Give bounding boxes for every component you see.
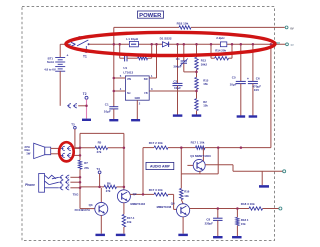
svg-text:C1: C1	[105, 102, 109, 106]
svg-text:C2: C2	[173, 80, 177, 84]
svg-text:27k: 27k	[97, 150, 102, 154]
svg-text:T4: T4	[96, 167, 100, 171]
svg-text:LT1613: LT1613	[123, 71, 133, 75]
svg-text:10μF: 10μF	[230, 83, 237, 87]
svg-text:T5G: T5G	[73, 192, 80, 196]
svg-text:GND: GND	[135, 97, 141, 100]
svg-text:D1 SS22: D1 SS22	[160, 37, 172, 41]
svg-text:R17 3 10k: R17 3 10k	[149, 188, 163, 192]
svg-text:Q3: Q3	[89, 203, 93, 207]
svg-text:220pF: 220pF	[205, 221, 214, 225]
svg-text:C6: C6	[256, 76, 260, 80]
svg-text:15k: 15k	[203, 104, 208, 108]
svg-text:2.2μH: 2.2μH	[216, 36, 224, 40]
svg-text:R7: R7	[84, 161, 88, 165]
svg-text:POWER: POWER	[139, 13, 162, 19]
svg-text:+: +	[247, 77, 249, 81]
svg-text:27k: 27k	[106, 189, 111, 193]
svg-text:C4: C4	[176, 57, 180, 61]
svg-text:T3: T3	[71, 122, 75, 126]
svg-text:R18 10k: R18 10k	[177, 22, 189, 26]
svg-text:U1: U1	[123, 66, 127, 70]
svg-text:R6: R6	[107, 181, 111, 185]
svg-text:0V: 0V	[290, 26, 294, 30]
svg-text:10μF: 10μF	[104, 109, 111, 113]
svg-text:6xAA: 6xAA	[47, 60, 54, 64]
svg-text:FB: FB	[144, 92, 147, 95]
svg-text:1W: 1W	[26, 152, 31, 156]
svg-text:27k: 27k	[84, 166, 89, 170]
svg-text:R17 1 10k: R17 1 10k	[191, 140, 205, 144]
svg-text:T1: T1	[83, 54, 87, 58]
svg-text:+: +	[67, 54, 69, 58]
svg-text:Q2: Q2	[133, 192, 137, 196]
svg-text:R17 2 10k: R17 2 10k	[149, 141, 163, 145]
svg-text:Phone: Phone	[25, 183, 35, 187]
svg-text:T2: T2	[83, 92, 87, 96]
svg-text:VIN: VIN	[127, 78, 131, 81]
svg-text:MMBT1008: MMBT1008	[157, 205, 172, 209]
svg-text:Q4: Q4	[171, 202, 175, 206]
svg-text:SH: SH	[127, 92, 131, 95]
svg-text:C5: C5	[232, 76, 236, 80]
svg-text:0V: 0V	[291, 43, 294, 47]
svg-text:R16: R16	[184, 189, 190, 193]
svg-text:R5: R5	[98, 141, 102, 145]
svg-text:R14 20k: R14 20k	[215, 48, 226, 52]
svg-text:390pF: 390pF	[173, 64, 182, 68]
svg-text:L1 10μH: L1 10μH	[126, 37, 138, 41]
svg-text:10k: 10k	[184, 194, 189, 198]
svg-text:R18 3 10k: R18 3 10k	[241, 202, 255, 206]
svg-text:39k2: 39k2	[201, 62, 208, 66]
svg-text:FCX49147A: FCX49147A	[75, 208, 90, 212]
svg-text:10k: 10k	[127, 220, 132, 224]
svg-text:R17.4: R17.4	[127, 216, 135, 220]
svg-text:AUDIO AMP: AUDIO AMP	[150, 165, 171, 169]
svg-text:MMBT4403: MMBT4403	[130, 202, 145, 206]
svg-text:15k: 15k	[203, 82, 208, 86]
svg-text:4.8 to 6V: 4.8 to 6V	[44, 67, 56, 71]
svg-text:10μF: 10μF	[174, 86, 181, 90]
svg-text:Q1 MMBT4403: Q1 MMBT4403	[190, 154, 211, 158]
svg-text:10V: 10V	[254, 88, 259, 92]
svg-text:15k: 15k	[241, 222, 246, 226]
